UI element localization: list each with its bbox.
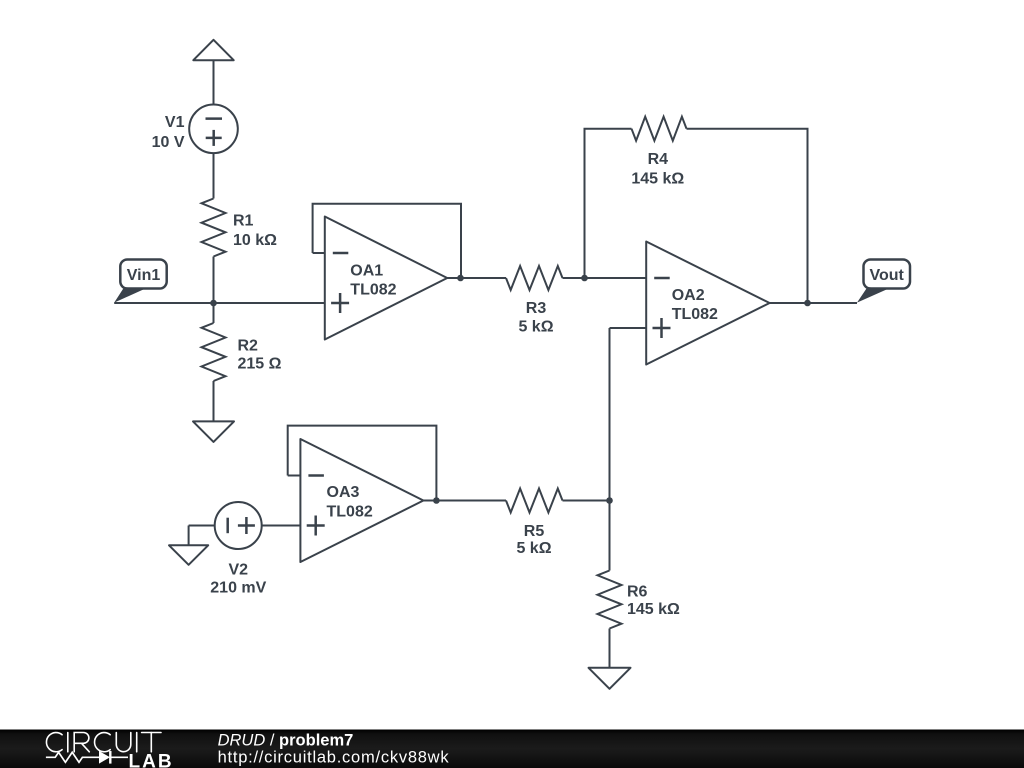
svg-text:R2: R2 bbox=[238, 337, 259, 354]
svg-text:145 kΩ: 145 kΩ bbox=[627, 601, 680, 618]
svg-text:R1: R1 bbox=[233, 213, 254, 230]
svg-text:DRUD / problem7: DRUD / problem7 bbox=[218, 731, 354, 749]
svg-text:145 kΩ: 145 kΩ bbox=[631, 170, 684, 187]
svg-text:http://circuitlab.com/ckv88wk: http://circuitlab.com/ckv88wk bbox=[218, 748, 450, 766]
svg-text:Vout: Vout bbox=[870, 267, 905, 284]
svg-text:10 kΩ: 10 kΩ bbox=[233, 232, 277, 249]
svg-text:OA3: OA3 bbox=[327, 484, 360, 501]
svg-text:5 kΩ: 5 kΩ bbox=[516, 540, 551, 557]
svg-text:OA2: OA2 bbox=[672, 287, 705, 304]
svg-text:210 mV: 210 mV bbox=[210, 580, 266, 597]
svg-text:TL082: TL082 bbox=[672, 306, 718, 323]
svg-text:LAB: LAB bbox=[129, 751, 174, 768]
svg-text:TL082: TL082 bbox=[350, 281, 396, 298]
svg-text:OA1: OA1 bbox=[350, 263, 383, 280]
svg-text:R4: R4 bbox=[648, 151, 669, 168]
svg-text:V1: V1 bbox=[165, 114, 185, 131]
svg-text:R6: R6 bbox=[627, 584, 648, 601]
svg-text:215 Ω: 215 Ω bbox=[238, 356, 282, 373]
svg-text:Vin1: Vin1 bbox=[127, 267, 161, 284]
svg-text:TL082: TL082 bbox=[327, 503, 373, 520]
svg-text:V2: V2 bbox=[229, 562, 249, 579]
svg-text:5 kΩ: 5 kΩ bbox=[518, 319, 553, 336]
svg-text:10 V: 10 V bbox=[152, 134, 185, 151]
svg-text:R5: R5 bbox=[524, 523, 545, 540]
svg-text:R3: R3 bbox=[526, 300, 547, 317]
